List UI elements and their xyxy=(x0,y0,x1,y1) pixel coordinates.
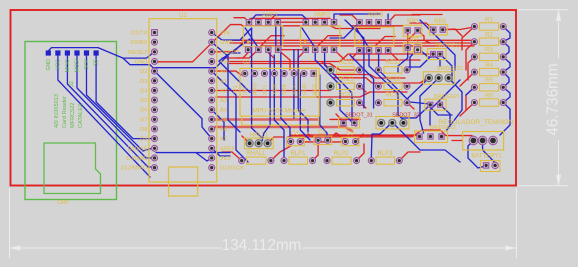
resistor R1 xyxy=(480,23,499,30)
svg-text:R5: R5 xyxy=(485,78,493,84)
resistor RC21 xyxy=(337,83,355,89)
connector SEDOT_31 xyxy=(339,118,360,128)
wire (top) xyxy=(250,17,330,19)
resistor R5 xyxy=(480,84,499,91)
jumper BRIDGE22 xyxy=(415,131,448,143)
wire (bottom) xyxy=(350,55,374,108)
RFID connector J1 pads xyxy=(46,50,99,55)
wire (top) xyxy=(399,152,420,161)
MPU pad row xyxy=(242,71,317,77)
wire (bottom) xyxy=(357,29,370,49)
wire (top) xyxy=(216,90,331,92)
sensor HALL1 xyxy=(244,138,273,149)
wire (top) xyxy=(466,42,474,70)
wire (bottom) xyxy=(430,107,452,115)
svg-text:MOSI: MOSI xyxy=(75,59,81,72)
wire (top) xyxy=(216,71,241,75)
wire thick V+ (top) xyxy=(215,118,318,121)
wire (bottom) xyxy=(245,28,258,48)
wire (top) xyxy=(236,53,248,58)
svg-text:RC12: RC12 xyxy=(385,60,401,66)
wire fan 4 xyxy=(96,55,152,139)
svg-text:A5: A5 xyxy=(220,117,227,123)
module MPU outline xyxy=(240,68,319,116)
wire (top) xyxy=(278,49,306,51)
resistor RLP2 xyxy=(332,157,351,164)
wire (bottom) xyxy=(249,15,306,22)
wire (top) xyxy=(357,144,365,161)
svg-text:RC32: RC32 xyxy=(385,93,401,99)
svg-text:D8: D8 xyxy=(140,127,147,133)
wire (bottom) xyxy=(410,50,418,70)
svg-text:U1: U1 xyxy=(179,13,187,19)
wire (bottom) xyxy=(408,78,429,104)
capacitor C3 xyxy=(341,137,359,145)
svg-text:D4: D4 xyxy=(140,88,148,94)
capacitor C1 xyxy=(287,137,305,145)
wire (bottom) xyxy=(398,48,408,73)
AMP1 bottom pads xyxy=(245,47,280,52)
resistor RP3 xyxy=(429,24,447,35)
svg-text:BRIDGE21: BRIDGE21 xyxy=(434,94,460,100)
wire (top) xyxy=(229,54,429,62)
svg-text:GND: GND xyxy=(302,83,308,95)
RFID module outline xyxy=(25,42,117,200)
U1 right pin labels xyxy=(220,31,244,172)
jumper BRIDGE11 xyxy=(428,49,447,60)
wire (top) xyxy=(452,140,462,142)
wire (bottom) xyxy=(369,50,403,119)
wire (top) xyxy=(352,26,403,29)
connector JP2 outline xyxy=(300,68,317,97)
wire fan 1 xyxy=(67,55,152,167)
wire (bottom) xyxy=(447,78,462,130)
wire (bottom) xyxy=(123,53,240,68)
wire (bottom) xyxy=(212,71,248,162)
wire (bottom) xyxy=(212,42,240,132)
svg-text:MISO: MISO xyxy=(65,59,71,72)
wire (top) xyxy=(466,87,474,110)
svg-text:J2: J2 xyxy=(69,81,75,87)
svg-text:RP3: RP3 xyxy=(434,19,446,25)
svg-text:SS: SS xyxy=(94,58,100,65)
MPU pin labels xyxy=(243,83,318,95)
svg-text:C1: C1 xyxy=(291,131,299,137)
resistor R3 xyxy=(480,53,499,60)
svg-text:AMP1: AMP1 xyxy=(262,13,279,19)
svg-text:D0/RX: D0/RX xyxy=(130,40,147,46)
svg-text:RC22: RC22 xyxy=(385,76,401,82)
svg-text:Card Reader: Card Reader xyxy=(62,96,68,128)
AMP2 top pads xyxy=(303,20,337,25)
wire (bottom) xyxy=(330,22,360,38)
wire (bottom) xyxy=(262,50,270,141)
svg-text:C3: C3 xyxy=(346,131,354,137)
wire (bottom) xyxy=(503,72,509,87)
svg-text:AREF: AREF xyxy=(220,146,236,152)
svg-text:134.112mm: 134.112mm xyxy=(222,237,302,254)
wire (top) xyxy=(300,134,318,142)
resistor RP1 xyxy=(403,25,422,36)
wire (bottom) xyxy=(281,26,290,138)
wire (top) xyxy=(333,78,429,83)
wire (top) xyxy=(375,37,395,47)
wire (top) xyxy=(360,86,367,92)
wire (top) xyxy=(234,18,249,23)
svg-text:D1/TX: D1/TX xyxy=(131,31,148,37)
svg-text:BATTERY1: BATTERY1 xyxy=(471,154,502,160)
wire (bottom) xyxy=(402,105,430,118)
wire (bottom) xyxy=(212,28,252,74)
svg-text:REGULADOR_TENSION: REGULADOR_TENSION xyxy=(438,119,513,126)
svg-text:CRP: CRP xyxy=(57,200,69,206)
wire (bottom) xyxy=(300,74,310,141)
svg-text:SCL: SCL xyxy=(292,85,298,96)
wire (bottom) xyxy=(420,20,455,70)
svg-text:A6: A6 xyxy=(220,127,227,133)
wire (top) xyxy=(356,134,364,142)
svg-text:RC21: RC21 xyxy=(338,76,354,82)
wire (bottom) xyxy=(503,27,510,42)
AMP2 bottom pads xyxy=(303,47,337,52)
resistor RC32 xyxy=(384,100,402,106)
svg-text:VCC: VCC xyxy=(312,84,318,95)
wire (bottom) xyxy=(156,153,230,161)
resistor R4 xyxy=(480,68,499,75)
svg-text:VCC: VCC xyxy=(55,59,61,70)
capacitor C2 xyxy=(314,136,332,144)
wire (top) xyxy=(447,27,474,51)
svg-text:BRIDGE11: BRIDGE11 xyxy=(435,43,460,49)
wire (top) xyxy=(230,42,474,44)
resistor RLP3 xyxy=(376,157,395,164)
resistor R2 xyxy=(480,38,499,45)
resistor RC22 xyxy=(384,83,402,89)
svg-text:D3: D3 xyxy=(140,79,147,85)
svg-text:GND: GND xyxy=(220,40,233,46)
svg-text:R2: R2 xyxy=(485,33,493,39)
wire (top) xyxy=(155,25,360,62)
wire (bottom) xyxy=(212,110,224,140)
AMP3 bottom pads xyxy=(357,48,391,53)
svg-text:A2: A2 xyxy=(220,88,227,94)
U1 left pad column xyxy=(152,30,158,171)
wire (top) xyxy=(288,130,472,137)
svg-text:ADO: ADO xyxy=(253,83,259,95)
IC AMP3 outline xyxy=(355,27,394,46)
svg-text:RC11: RC11 xyxy=(339,60,355,66)
wire (top) xyxy=(418,30,430,43)
svg-text:HALL1: HALL1 xyxy=(250,133,269,139)
svg-text:A4: A4 xyxy=(220,108,228,114)
wire (top) xyxy=(322,62,331,70)
svg-text:D6: D6 xyxy=(140,108,147,114)
wire (top) xyxy=(222,152,242,161)
svg-text:RP1: RP1 xyxy=(407,19,419,25)
wire (top) xyxy=(468,57,474,80)
svg-text:R4: R4 xyxy=(485,63,493,69)
wire (top) xyxy=(261,36,284,46)
svg-text:GND: GND xyxy=(135,59,148,65)
resistor RC11 xyxy=(337,67,355,73)
IC U1 outline xyxy=(149,19,217,182)
IC AMP1 outline xyxy=(243,26,282,47)
wire (bottom) xyxy=(418,48,440,67)
svg-text:4/0 II\OI\5013: 4/0 II\OI\5013 xyxy=(54,94,60,128)
dimension extension line right-bottom xyxy=(516,188,518,258)
wire (top) xyxy=(268,137,284,143)
wire (top) xyxy=(330,118,360,120)
wire (bottom) xyxy=(379,50,430,104)
svg-text:R3: R3 xyxy=(485,48,493,54)
svg-text:D5: D5 xyxy=(140,98,147,104)
svg-text:SEDOT_31: SEDOT_31 xyxy=(345,113,373,119)
svg-text:RP2: RP2 xyxy=(407,38,419,44)
wire (top) xyxy=(388,15,420,22)
wire (top) xyxy=(222,50,258,58)
wire (top) xyxy=(352,50,360,58)
wire (top) xyxy=(443,29,462,36)
RFID connector pin labels xyxy=(46,58,100,72)
wire (top) xyxy=(268,15,275,22)
svg-text:SDA: SDA xyxy=(282,84,288,95)
dimension extension line left xyxy=(9,188,11,258)
board outline xyxy=(11,10,517,186)
wire (bottom) xyxy=(298,50,308,132)
wire (bottom) xyxy=(325,50,352,120)
wire (top) xyxy=(268,53,274,58)
horizontal dimension line 134.112mm xyxy=(10,245,517,250)
wire (bottom) xyxy=(252,74,262,139)
AMP1 top pads xyxy=(246,20,280,25)
wire (bottom) xyxy=(395,125,460,162)
wire (top) xyxy=(278,21,306,23)
connector SEDOT_32 xyxy=(376,117,409,130)
wire (bottom) xyxy=(406,54,433,67)
wire (bottom) xyxy=(430,80,460,125)
wire (bottom) xyxy=(345,20,364,108)
resistor RC12 xyxy=(384,67,402,73)
svg-text:BRIDGE22: BRIDGE22 xyxy=(430,125,456,131)
wire (top) xyxy=(278,50,290,70)
wire (bottom) xyxy=(275,26,277,50)
svg-text:D7: D7 xyxy=(140,117,147,123)
wire (top) xyxy=(230,39,474,41)
wire (bottom) xyxy=(334,14,380,22)
svg-text:A7: A7 xyxy=(220,137,227,143)
wire (top) xyxy=(333,75,405,79)
jumper BRIDGE12 xyxy=(424,72,455,84)
wire (bottom) xyxy=(440,54,452,80)
wire (top) xyxy=(271,146,291,161)
regulator VR1 xyxy=(463,132,504,151)
wire (bottom) xyxy=(420,78,439,133)
wire (top) xyxy=(313,144,319,161)
connector BATTERY1 xyxy=(481,161,501,172)
svg-text:GND: GND xyxy=(46,59,52,71)
svg-text:XDA: XDA xyxy=(272,84,278,95)
svg-text:A3: A3 xyxy=(220,98,227,104)
wire power (top) xyxy=(290,134,416,136)
wire (bottom) xyxy=(219,39,250,93)
svg-text:RLP2: RLP2 xyxy=(333,151,349,157)
svg-text:AMP3: AMP3 xyxy=(367,13,384,19)
svg-text:RLP3: RLP3 xyxy=(377,151,393,157)
wire (bottom) xyxy=(468,141,486,169)
wire (bottom) xyxy=(274,55,284,161)
wire fan 2 xyxy=(77,55,152,158)
wire RFID bus to U1 RESET xyxy=(48,48,154,59)
AMP3 top pads xyxy=(357,20,391,25)
svg-text:A1: A1 xyxy=(220,79,227,85)
svg-text:XCL: XCL xyxy=(263,85,269,96)
svg-text:+5V: +5V xyxy=(220,59,231,65)
U1 right pad column xyxy=(209,30,215,171)
svg-text:D13/SCK: D13/SCK xyxy=(220,166,244,172)
U1 left pin labels xyxy=(120,31,148,172)
wire (top) xyxy=(300,141,345,143)
wire (bottom) xyxy=(466,87,474,95)
wire (top) xyxy=(340,15,360,22)
svg-text:D11/MO: D11/MO xyxy=(126,156,148,162)
svg-text:JP1: JP1 xyxy=(233,85,239,94)
wire (bottom) xyxy=(371,122,392,158)
wire (top) xyxy=(216,92,407,97)
svg-text:RESET: RESET xyxy=(220,50,240,56)
RFID module silkscreen text xyxy=(54,94,84,128)
wire (bottom) xyxy=(503,87,510,102)
wire (top) xyxy=(242,136,250,143)
wire (top) xyxy=(460,72,474,86)
svg-text:RLP1: RLP1 xyxy=(290,151,306,157)
svg-text:A0: A0 xyxy=(220,69,227,75)
wire (top) xyxy=(212,40,245,52)
dimension extension line bottom-right xyxy=(518,185,568,187)
svg-text:CATALEX: CATALEX xyxy=(78,103,84,128)
wire (top) xyxy=(360,103,367,108)
resistor RLP1 xyxy=(289,157,308,164)
wire (bottom) xyxy=(293,50,295,118)
wire (bottom) xyxy=(387,14,389,22)
wire (top) xyxy=(336,114,344,122)
vertical dimension line 46.736mm xyxy=(59,10,562,186)
wire (bottom) xyxy=(212,148,230,156)
svg-text:D9: D9 xyxy=(140,137,147,143)
svg-text:VIN: VIN xyxy=(220,31,230,37)
svg-text:C2: C2 xyxy=(318,130,326,136)
wire (bottom) xyxy=(503,42,509,57)
wire (bottom) xyxy=(500,103,510,136)
wire (bottom) xyxy=(440,105,450,126)
wire (bottom) xyxy=(302,28,315,48)
dimension extension line top-right xyxy=(518,9,568,11)
wire (bottom) xyxy=(315,50,356,126)
svg-text:D10/SS: D10/SS xyxy=(128,146,148,152)
svg-text:RC31: RC31 xyxy=(338,93,354,99)
wire (bottom) xyxy=(320,75,327,138)
resistor RP2 xyxy=(403,43,422,52)
pad P1 xyxy=(415,47,421,53)
svg-text:MPU-6050 Module: MPU-6050 Module xyxy=(252,108,306,115)
wire (top) xyxy=(261,45,474,47)
svg-text:MFRC522: MFRC522 xyxy=(70,103,76,129)
wire fan 5 xyxy=(58,55,150,177)
wire (top) xyxy=(328,133,346,140)
svg-text:SEDOT_32: SEDOT_32 xyxy=(392,113,420,119)
wire (top) xyxy=(408,30,418,47)
svg-text:U2: U2 xyxy=(243,60,250,66)
svg-text:R1: R1 xyxy=(485,17,493,23)
wire (top) xyxy=(318,36,341,46)
jumper BRIDGE21 xyxy=(425,99,446,110)
wire (bottom) xyxy=(483,141,496,164)
svg-text:D2: D2 xyxy=(140,69,147,75)
svg-text:46.736mm: 46.736mm xyxy=(545,63,562,135)
wire (top) xyxy=(460,103,474,117)
wire (top) xyxy=(229,64,356,71)
RFID module inner outline xyxy=(44,143,101,194)
USB connector outline xyxy=(169,167,198,196)
IC AMP2 outline xyxy=(301,26,340,47)
svg-text:BRIDGE12: BRIDGE12 xyxy=(437,66,463,72)
wire (bottom) xyxy=(155,71,212,139)
svg-text:RESET: RESET xyxy=(128,50,148,56)
svg-text:3V3: 3V3 xyxy=(220,156,230,162)
wire (top) xyxy=(388,50,420,60)
svg-text:INT: INT xyxy=(243,86,249,95)
wire fan 3 xyxy=(87,55,153,151)
wire (bottom) xyxy=(503,57,510,72)
resistor RHALL xyxy=(247,157,267,164)
wire thick V- (top) xyxy=(215,127,352,131)
resistor RC31 xyxy=(337,100,355,106)
svg-text:SCK: SCK xyxy=(84,58,90,69)
svg-text:AMP2: AMP2 xyxy=(314,13,331,19)
wire (top) xyxy=(407,103,414,109)
resistor R6 xyxy=(480,99,499,106)
wire (top) xyxy=(334,50,400,60)
wire (top) xyxy=(410,15,442,30)
svg-text:D12/MISO: D12/MISO xyxy=(120,166,148,172)
svg-text:R6: R6 xyxy=(485,93,493,99)
wire (top) xyxy=(298,50,306,68)
svg-text:RHALL: RHALL xyxy=(246,151,266,157)
